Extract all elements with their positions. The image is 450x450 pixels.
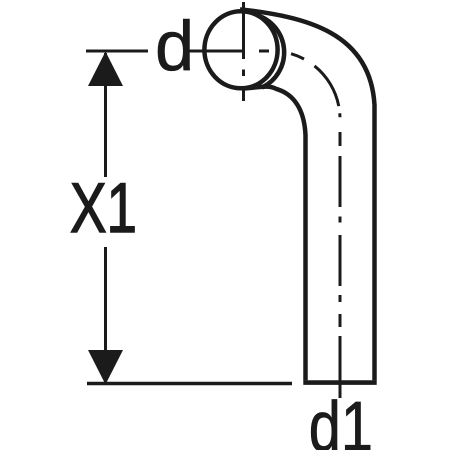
svg-text:X1: X1 <box>70 168 137 247</box>
svg-text:d: d <box>155 6 194 85</box>
svg-text:d1: d1 <box>309 387 373 450</box>
